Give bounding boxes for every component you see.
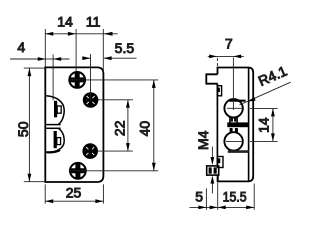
screw P4 (phillips bottom): [70, 163, 86, 179]
M4 leader lines: [211, 147, 213, 159]
side view body top edge and right strip: [218, 68, 254, 182]
svg-text:5.5: 5.5: [115, 40, 135, 56]
roller circle top: [224, 99, 242, 117]
dimension line 14 / 11: [45, 33, 104, 35]
extension line screw P1 axis: [75, 29, 77, 72]
extension lines 14 right: [250, 107, 278, 109]
svg-text:M4: M4: [195, 130, 211, 150]
side view top tab: [206, 74, 217, 83]
svg-text:4: 4: [17, 39, 25, 55]
clip gap double line: [46, 124, 60, 126]
dimension line 4: [10, 58, 46, 60]
dimension line 5.5: [82, 57, 90, 59]
extension line plate right edge: [102, 29, 104, 72]
svg-text:22: 22: [112, 120, 128, 136]
clip channel edge line: [52, 55, 54, 101]
clip finger top bar: [54, 101, 57, 118]
M4 stud: [207, 166, 219, 175]
svg-text:14: 14: [256, 117, 272, 133]
roller circle bottom centerline: [226, 140, 243, 142]
dimension line 25: [45, 200, 103, 202]
side view bottom left edge: [217, 175, 219, 181]
svg-text:25: 25: [66, 185, 82, 201]
extension lines 25: [44, 184, 46, 203]
dimension line 7: [208, 55, 244, 57]
svg-text:50: 50: [15, 121, 31, 137]
dimension line 14 right: [272, 108, 274, 141]
extension dash above body: [216, 58, 218, 61]
dimension line 5 / 15.5: [190, 206, 255, 208]
middle bar: [227, 122, 249, 127]
clip finger bottom arc: [46, 128, 64, 152]
screw S2 (black top): [83, 92, 99, 108]
svg-text:7: 7: [225, 36, 233, 52]
side view lower notch rect: [217, 157, 223, 168]
svg-text:11: 11: [86, 14, 101, 30]
dimension line 50: [28, 68, 30, 182]
screw P1 (phillips top): [69, 72, 85, 88]
neck between circle1 and bar: [229, 116, 231, 123]
roller circle top centerlines: [227, 107, 242, 109]
extension line screw S2 axis: [90, 54, 92, 100]
side view mid left edge: [216, 84, 218, 166]
R4.1 leader: [240, 82, 291, 105]
screw S3 (black bottom): [82, 143, 98, 159]
extension lines 5 / 15.5: [205, 188, 207, 210]
roller circle bottom: [224, 132, 242, 150]
extension lines 22: [98, 99, 133, 101]
neck between bar and circle2: [230, 128, 233, 132]
extension lines 40: [70, 79, 158, 81]
svg-text:5: 5: [195, 188, 203, 204]
svg-text:14: 14: [57, 14, 73, 30]
extension line left (x=45.3): [44, 29, 46, 67]
svg-text:15.5: 15.5: [223, 188, 247, 204]
clip finger top tab: [57, 106, 61, 113]
side view inner right line: [248, 68, 250, 181]
clip finger top arc: [46, 96, 64, 125]
clip finger upper ledge line: [229, 100, 245, 102]
clip finger bottom bar: [54, 131, 57, 148]
dimension line 40: [153, 80, 155, 171]
dimension line 22: [127, 100, 129, 151]
clip finger bottom tab: [57, 138, 61, 145]
line below circle2: [228, 150, 249, 153]
side view upper notch rect: [217, 86, 221, 96]
mounting plate outline (front view): [45, 67, 103, 182]
extension lines 50: [24, 67, 45, 69]
svg-text:40: 40: [137, 121, 153, 137]
